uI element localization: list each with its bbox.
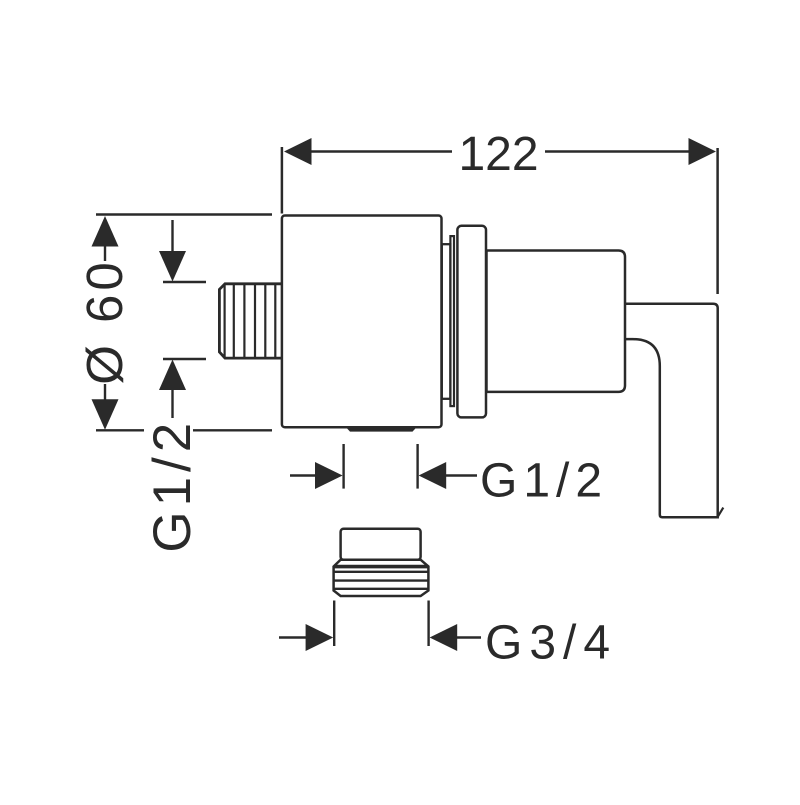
threaded nipple thread line 3 xyxy=(254,285,256,357)
dimension G3/4: right lead line xyxy=(456,636,481,638)
threaded nipple thread line 4 xyxy=(264,285,266,357)
lever handle bottom-right edge tick xyxy=(718,508,724,517)
hose adapter thread line 1 xyxy=(334,571,429,573)
dimension G3/4: left extension line xyxy=(333,601,335,647)
dimension G1/2 wall union: down arrowhead xyxy=(159,251,186,282)
escutcheon flange xyxy=(457,226,486,418)
valve body xyxy=(282,216,442,428)
threaded nipple chamfer edge xyxy=(224,285,226,358)
dimension G1/2 outlet: right-pointing arrowhead xyxy=(315,462,343,489)
dimension G1/2 outlet: left lead line xyxy=(290,474,316,476)
dimension G1/2 outlet: right lead line xyxy=(445,474,477,476)
dimension Ø60: down arrowhead xyxy=(92,399,119,430)
hose adapter threaded collar outline xyxy=(334,560,429,596)
cartridge housing xyxy=(487,251,626,392)
dimension 122: left extension line xyxy=(281,147,284,214)
svg-text:G3/4: G3/4 xyxy=(485,616,617,669)
dimension G3/4: right-pointing arrowhead xyxy=(306,624,334,651)
dimension 122: right arrowhead xyxy=(689,138,717,165)
dimension G3/4: left lead line xyxy=(279,636,307,638)
dimension Ø60: lower line segment xyxy=(104,384,106,400)
svg-text:Ø 60: Ø 60 xyxy=(76,258,133,385)
dimension G1/2 outlet: right extension line xyxy=(416,444,418,489)
hose adapter thread line 2 xyxy=(334,579,429,581)
adapter ring 2 xyxy=(450,236,454,406)
svg-text:G1/2: G1/2 xyxy=(480,454,608,507)
threaded nipple outline xyxy=(219,284,282,358)
dimension G3/4: left-pointing arrowhead xyxy=(430,624,458,651)
dimension G1/2 outlet: left-pointing arrowhead xyxy=(419,462,447,489)
threaded nipple thread line 5 xyxy=(274,285,276,357)
dimension G1/2 wall union: top extension tick xyxy=(163,281,206,283)
dimension G1/2 wall union: upper line segment xyxy=(171,220,173,252)
dimension 122: dimension line left segment xyxy=(308,150,452,152)
hose adapter thread line 3 xyxy=(334,588,429,590)
dimension G1/2 wall union: up arrowhead xyxy=(159,360,186,391)
dimension 122: right extension line xyxy=(716,148,719,294)
dimension Ø60: bottom extension tick (right of text) xyxy=(193,429,272,431)
dimension G1/2 wall union: lower line segment xyxy=(171,389,173,418)
dimension Ø60: bottom extension tick (left of text) xyxy=(96,429,144,431)
dimension 122: left arrowhead xyxy=(284,138,312,165)
dimension Ø60: upper line segment xyxy=(104,245,106,261)
dimension G1/2 outlet: left extension line xyxy=(342,444,344,489)
dimension Ø60: up arrowhead xyxy=(92,216,119,247)
svg-text:G1/2: G1/2 xyxy=(143,418,202,553)
hose adapter cap xyxy=(341,529,421,560)
threaded nipple thread line 2 xyxy=(243,285,245,357)
valve body bottom outlet tab xyxy=(346,427,418,432)
hose adapter collar shoulder line xyxy=(334,565,428,569)
dimension Ø60: top extension tick xyxy=(96,213,272,215)
adapter ring 1 xyxy=(442,244,451,399)
dimension G3/4: right extension line xyxy=(427,601,429,647)
lever handle outline xyxy=(625,304,718,518)
svg-text:122: 122 xyxy=(458,128,538,181)
dimension 122: dimension line right segment xyxy=(545,150,691,152)
threaded nipple thread line 1 xyxy=(233,285,235,357)
dimension G1/2 wall union: bottom extension tick xyxy=(163,358,206,360)
